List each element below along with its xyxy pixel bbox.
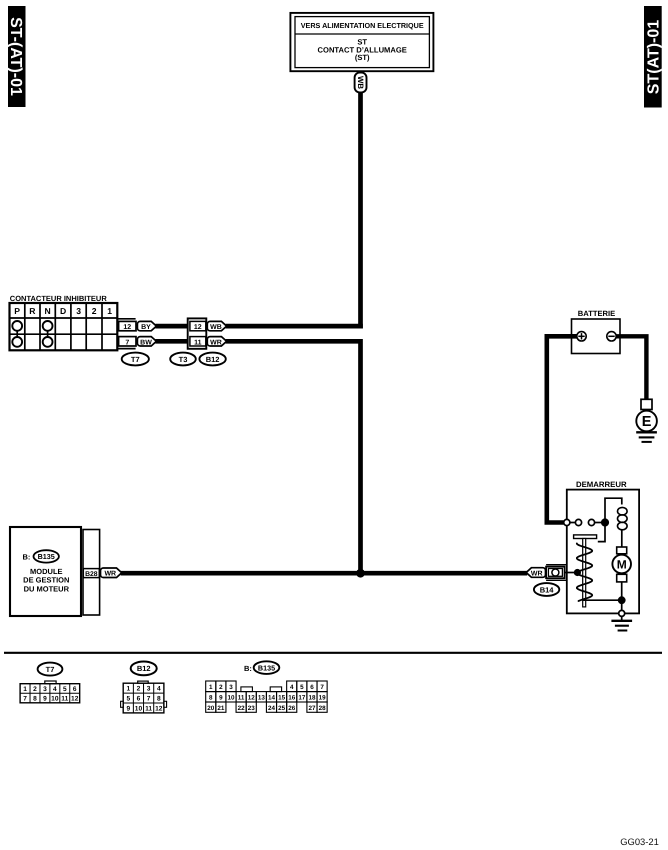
- svg-text:BW: BW: [140, 339, 152, 346]
- ECM connector strip: [83, 530, 100, 616]
- svg-text:VERS ALIMENTATION ELECTRIQUE: VERS ALIMENTATION ELECTRIQUE: [301, 21, 424, 30]
- motor armature M: [612, 555, 631, 574]
- svg-text:15: 15: [278, 695, 286, 702]
- wire connector into starter: [565, 572, 574, 574]
- svg-text:WR: WR: [104, 570, 116, 577]
- junction dot (solenoid node): [601, 518, 609, 526]
- svg-text:B14: B14: [540, 585, 555, 594]
- starter case terminal circle: [619, 610, 625, 616]
- wire battery negative to ground E: [616, 336, 646, 399]
- svg-text:DEMARREUR: DEMARREUR: [576, 480, 627, 489]
- wire plunger base to ground junction: [583, 599, 622, 601]
- svg-text:GG03-21: GG03-21: [620, 836, 659, 847]
- plunger return spring: [577, 543, 592, 601]
- connector B12 pin 11: [190, 337, 206, 347]
- svg-text:B:: B:: [23, 552, 31, 561]
- svg-text:2: 2: [33, 686, 37, 693]
- svg-text:4: 4: [290, 684, 294, 691]
- contact circle b: [588, 519, 594, 525]
- pinout grid B135: [206, 681, 327, 712]
- svg-text:9: 9: [43, 696, 47, 703]
- wire colour tag BY: [137, 321, 156, 331]
- svg-text:2: 2: [92, 306, 97, 316]
- svg-text:12: 12: [123, 324, 131, 331]
- svg-text:T7: T7: [131, 355, 140, 364]
- svg-text:6: 6: [73, 686, 77, 693]
- svg-text:B12: B12: [206, 355, 220, 364]
- right page tab ST(AT)-01: [644, 6, 663, 108]
- svg-text:12: 12: [248, 695, 256, 702]
- starter ground symbol: [611, 616, 632, 630]
- svg-text:20: 20: [207, 705, 215, 712]
- wire WR horizontal + vertical to starter: [226, 341, 361, 573]
- ECM label text: [23, 567, 69, 594]
- svg-text:14: 14: [268, 695, 276, 702]
- svg-text:B:: B:: [244, 664, 252, 673]
- svg-text:11: 11: [145, 706, 152, 713]
- svg-text:16: 16: [288, 695, 296, 702]
- wire node down to fixed contact: [598, 523, 605, 542]
- svg-text:BATTERIE: BATTERIE: [578, 309, 615, 318]
- svg-text:22: 22: [238, 705, 246, 712]
- battery negative terminal: [607, 332, 616, 341]
- wire BY segment: [155, 324, 187, 329]
- svg-text:WR: WR: [531, 570, 543, 577]
- junction dot at WR input: [574, 569, 581, 576]
- svg-text:4: 4: [53, 686, 57, 693]
- svg-text:28: 28: [319, 705, 327, 712]
- svg-text:DU MOTEUR: DU MOTEUR: [24, 585, 70, 594]
- wire colour tag WR (ECM side): [101, 568, 122, 578]
- svg-text:CONTACTEUR INHIBITEUR: CONTACTEUR INHIBITEUR: [10, 294, 108, 303]
- ground connector square: [641, 399, 652, 409]
- pinout oval T7: [38, 663, 63, 676]
- left page tab ST-(AT)-01: [7, 6, 25, 107]
- ECM pin B28: [83, 569, 99, 578]
- svg-text:1: 1: [23, 686, 27, 693]
- svg-text:B12: B12: [137, 664, 151, 673]
- connector label oval T7: [122, 353, 149, 366]
- wire to moving contact: [570, 522, 576, 524]
- connector joint T3/B12 shell: [188, 318, 207, 348]
- svg-text:8: 8: [33, 696, 37, 703]
- svg-text:T7: T7: [46, 665, 55, 674]
- connector label oval B14: [534, 583, 559, 596]
- svg-text:T3: T3: [179, 355, 188, 364]
- svg-text:4: 4: [157, 686, 161, 693]
- svg-text:17: 17: [298, 695, 306, 702]
- pinout grid T7: [20, 681, 80, 703]
- svg-text:13: 13: [258, 695, 266, 702]
- svg-text:3: 3: [229, 684, 233, 691]
- svg-text:5: 5: [300, 684, 304, 691]
- connector label oval T3: [170, 353, 196, 366]
- svg-text:B28: B28: [85, 571, 98, 578]
- svg-text:3: 3: [147, 686, 151, 693]
- svg-text:11: 11: [61, 696, 68, 703]
- svg-text:ST(AT)-01: ST(AT)-01: [646, 20, 663, 94]
- motor brush rectangle top: [617, 547, 627, 554]
- svg-text:M: M: [617, 557, 627, 571]
- connector T7 pin 12: [119, 321, 136, 331]
- starter terminal circle (B+): [564, 519, 570, 525]
- svg-text:27: 27: [308, 705, 316, 712]
- separator line: [4, 652, 662, 654]
- ground point circle E: [636, 410, 657, 432]
- svg-text:12: 12: [71, 696, 79, 703]
- pinout label B: B135: [244, 661, 279, 674]
- junction dot at motor ground: [618, 596, 626, 604]
- svg-text:1: 1: [209, 684, 213, 691]
- motor brush rectangle bottom: [617, 574, 627, 582]
- ground symbol (battery earth): [636, 432, 657, 442]
- svg-text:2: 2: [137, 686, 141, 693]
- connector B14 shell lines: [546, 565, 567, 581]
- svg-text:WR: WR: [210, 339, 222, 346]
- svg-text:WB: WB: [356, 76, 365, 89]
- wire colour tag BW: [137, 337, 156, 347]
- wire BW segment: [155, 339, 187, 344]
- battery box: [572, 319, 621, 354]
- svg-text:26: 26: [288, 705, 296, 712]
- wire motor to ground junction: [621, 582, 623, 611]
- svg-text:BY: BY: [141, 324, 151, 331]
- svg-text:D: D: [60, 306, 66, 316]
- svg-text:9: 9: [126, 706, 130, 713]
- svg-text:N: N: [44, 306, 50, 316]
- svg-text:E: E: [642, 414, 652, 430]
- pinout grid B12: [121, 681, 167, 713]
- svg-text:8: 8: [209, 695, 213, 702]
- svg-text:B135: B135: [258, 663, 275, 672]
- starter box: [567, 490, 639, 614]
- wire battery positive to starter: [547, 336, 577, 522]
- svg-text:1: 1: [126, 686, 130, 693]
- svg-text:7: 7: [23, 696, 27, 703]
- svg-text:R: R: [29, 306, 36, 316]
- svg-text:WB: WB: [210, 324, 222, 331]
- wire junction dot: [356, 569, 365, 578]
- svg-text:5: 5: [63, 686, 67, 693]
- svg-text:7: 7: [320, 684, 324, 691]
- svg-text:18: 18: [308, 695, 316, 702]
- svg-text:25: 25: [278, 705, 286, 712]
- svg-text:3: 3: [43, 686, 47, 693]
- svg-text:11: 11: [238, 695, 245, 702]
- pinout oval B12: [131, 662, 157, 676]
- inhibitor switch table frame: [10, 303, 118, 350]
- wire colour tag WB (vertical): [355, 73, 367, 93]
- wire colour tag WR: [207, 337, 226, 347]
- svg-text:19: 19: [319, 695, 327, 702]
- battery positive terminal: [577, 332, 586, 341]
- ECM label B: B135: [23, 550, 59, 562]
- plunger stem: [583, 539, 586, 607]
- svg-text:6: 6: [137, 696, 141, 703]
- svg-text:10: 10: [51, 696, 59, 703]
- inhibitor switch contacts (circles in P and N columns): [12, 321, 52, 347]
- wire node to solenoid coil: [605, 498, 622, 522]
- svg-text:12: 12: [155, 706, 163, 713]
- svg-text:7: 7: [147, 696, 151, 703]
- svg-text:23: 23: [248, 705, 256, 712]
- svg-text:24: 24: [268, 705, 276, 712]
- svg-text:DE GESTION: DE GESTION: [23, 575, 69, 584]
- svg-text:5: 5: [126, 696, 130, 703]
- svg-text:10: 10: [135, 706, 143, 713]
- svg-text:12: 12: [194, 324, 202, 331]
- svg-text:P: P: [14, 306, 20, 316]
- solenoid coil windings: [618, 507, 628, 547]
- svg-text:1: 1: [107, 306, 112, 316]
- svg-text:21: 21: [217, 705, 225, 712]
- svg-text:11: 11: [194, 339, 202, 346]
- connector label oval B12: [199, 353, 225, 366]
- ECM box MODULE DE GESTION DU MOTEUR: [10, 527, 81, 616]
- svg-text:9: 9: [219, 695, 223, 702]
- svg-text:B135: B135: [38, 552, 55, 561]
- wire WB horizontal segment: [226, 324, 363, 329]
- svg-text:3: 3: [76, 306, 81, 316]
- contact circle a: [575, 519, 581, 525]
- wire WR main horizontal run: [121, 571, 528, 576]
- inhibitor connector shell stubs: [117, 319, 135, 349]
- connector B14 body: [546, 567, 565, 579]
- svg-text:6: 6: [310, 684, 314, 691]
- connector B12 pin 12: [190, 321, 206, 331]
- wire contact b to node: [595, 522, 601, 524]
- svg-text:2: 2: [219, 684, 223, 691]
- wire colour tag WR (starter side): [526, 568, 545, 578]
- svg-text:8: 8: [157, 696, 161, 703]
- wire colour tag WB: [207, 321, 226, 331]
- connector T7 pin 7: [119, 337, 136, 347]
- ignition supply box VERS ALIMENTATION ELECTRIQUE: [290, 13, 433, 71]
- wire WB vertical from ignition box: [358, 92, 363, 328]
- plunger T-bar: [574, 535, 597, 539]
- svg-text:(ST): (ST): [355, 53, 370, 62]
- inhibitor gear position letters P R N D 3 2 1: [14, 306, 112, 316]
- svg-text:ST-(AT)-01: ST-(AT)-01: [7, 17, 24, 96]
- svg-text:10: 10: [227, 695, 235, 702]
- svg-text:7: 7: [125, 339, 129, 346]
